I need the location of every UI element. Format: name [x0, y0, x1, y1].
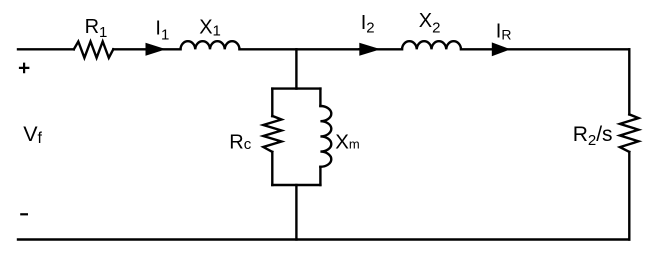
resistor Rc [263, 116, 281, 152]
svg-text:Xm: Xm [335, 130, 360, 153]
arrow IR (current direction) [492, 42, 511, 56]
wire: box right edge upper [319, 89, 321, 106]
wire: box right edge lower [319, 167, 321, 185]
svg-text:I1: I1 [155, 18, 169, 44]
svg-text:X2: X2 [419, 10, 441, 36]
svg-text:R1: R1 [85, 16, 108, 41]
resistor R2/s [620, 114, 639, 151]
wire: bottom return [18, 238, 629, 240]
svg-text:IR: IR [496, 21, 512, 43]
wire: box top bar [272, 87, 320, 89]
svg-text:Rc: Rc [229, 132, 251, 154]
arrow I2 (current direction) [359, 43, 380, 56]
svg-text:R2/s: R2/s [573, 123, 613, 149]
wire: I2 arrow to X2 [359, 48, 402, 50]
wire: X1 through node A to I2 arrow [240, 48, 360, 50]
wire: box left edge upper [271, 89, 273, 117]
wire: box stem down to bottom return [295, 185, 297, 240]
wire: box bottom bar [272, 184, 320, 186]
wire: X2 through IR arrow to top-right corner [461, 48, 629, 50]
wire: node A stem down to parallel box [295, 49, 297, 88]
plus terminal sign [19, 63, 30, 74]
wire: R1 to X1 (under I1 arrow) [113, 48, 180, 50]
minus terminal sign [20, 213, 28, 215]
inductor X2 [402, 41, 461, 49]
inductor Xm [320, 106, 331, 167]
svg-text:Vf: Vf [23, 122, 42, 147]
wire: box left edge lower [271, 152, 273, 185]
resistor R1 [74, 42, 114, 58]
wire: right vertical bottom [628, 152, 630, 240]
svg-text:I2: I2 [361, 12, 375, 36]
wire: top-left from + terminal to R1 [18, 48, 74, 50]
arrow I1 (current direction) [146, 43, 167, 56]
inductor X1 [181, 41, 240, 49]
wire: right vertical top [628, 49, 630, 114]
svg-text:X1: X1 [199, 16, 221, 39]
